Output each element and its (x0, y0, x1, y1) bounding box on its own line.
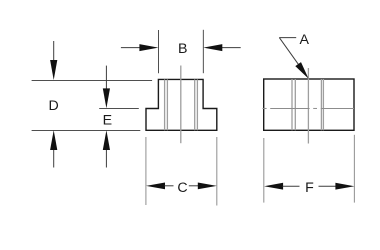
dimension B right arrowhead (203, 44, 222, 51)
front view T-nut outline (146, 79, 217, 130)
dimension C left arrowhead (146, 183, 165, 190)
dimension D bottom arrow shaft (53, 149, 55, 168)
svg-text:C: C (177, 180, 187, 196)
side view hidden line left outer (291, 79, 293, 130)
dimension F right extension line (353, 135, 355, 203)
extension line bottom (D/E lower) (32, 129, 141, 131)
dimension E top arrowhead (103, 88, 110, 108)
dimension C left shaft (165, 185, 174, 187)
side view horizontal centerline dash 2 (270, 107, 309, 109)
leader A horizontal segment (279, 37, 296, 39)
side view outline (264, 79, 354, 130)
svg-text:B: B (178, 41, 187, 57)
svg-text:E: E (103, 112, 112, 128)
svg-text:D: D (48, 98, 58, 114)
dimension E bottom arrow shaft (105, 149, 107, 168)
dimension E top arrow shaft (105, 66, 107, 90)
dimension C right extension line (216, 137, 218, 206)
dimension F right arrowhead (335, 183, 354, 190)
dimension D top arrow shaft (53, 41, 55, 61)
svg-text:F: F (305, 180, 314, 196)
dimension F left extension line (263, 138, 265, 203)
extension line top (D upper) (32, 79, 153, 81)
side view vertical centerline (307, 68, 309, 144)
side view hidden line right inner (320, 79, 322, 130)
dimension D top arrowhead (50, 60, 57, 80)
front view vertical centerline (180, 66, 182, 144)
front view hidden line (thread) right outer (196, 79, 198, 130)
dimension C left extension line (145, 137, 147, 205)
leader A arrowhead (295, 62, 308, 79)
side view horizontal centerline dash 4 (321, 107, 354, 109)
dimension F left shaft (283, 185, 300, 187)
dimension B right shaft (221, 47, 241, 49)
dimension C right arrowhead (198, 183, 217, 190)
dimension B left shaft (121, 47, 141, 49)
side view horizontal centerline dash 3 (313, 107, 317, 109)
leader A diagonal segment (279, 38, 303, 71)
dimension F left arrowhead (264, 183, 283, 190)
front view hidden line (thread) right inner (194, 79, 196, 130)
extension line middle (E upper) (99, 107, 139, 109)
dimension E bottom arrowhead (103, 130, 110, 150)
front view hidden line (thread) left inner (166, 79, 168, 130)
dimension B right extension line (202, 30, 204, 73)
dimension B left arrowhead (139, 44, 158, 51)
side view hidden line right outer (322, 79, 324, 130)
svg-text:A: A (299, 32, 309, 48)
dimension F right shaft (319, 185, 336, 187)
dimension D bottom arrowhead (50, 130, 57, 150)
dimension C right shaft (189, 185, 199, 187)
dimension B left extension line (158, 30, 160, 73)
side view hidden line left inner (294, 79, 296, 130)
front view hidden line (thread) left outer (164, 79, 166, 130)
side view horizontal centerline dash 1 (263, 107, 267, 109)
